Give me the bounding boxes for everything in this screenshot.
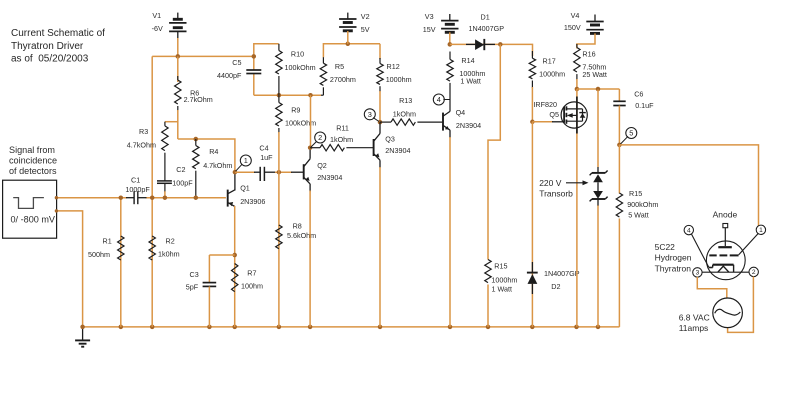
battery V2 [339,13,356,31]
C1 labels [125,176,150,195]
svg-text:11amps: 11amps [679,323,709,333]
svg-text:Q4: Q4 [456,108,466,117]
svg-text:C5: C5 [232,58,241,67]
svg-text:Thyratron Driver: Thyratron Driver [11,41,84,52]
wire D2 line [531,122,533,327]
svg-text:1000hm: 1000hm [386,75,412,84]
transistor Q2 [304,159,310,192]
R7 labels [241,268,263,290]
svg-text:Anode: Anode [713,210,738,220]
svg-text:R15: R15 [494,261,507,270]
svg-text:R3: R3 [139,127,148,136]
svg-text:Q3: Q3 [385,135,395,144]
R12 labels [386,62,412,84]
wire pin3 to AC [697,277,727,298]
svg-text:R17: R17 [543,56,556,65]
svg-text:5V: 5V [361,25,370,34]
capacitor C5 [246,70,261,74]
svg-text:R10: R10 [291,49,304,58]
Q2 labels [317,161,342,182]
svg-text:2N3904: 2N3904 [317,173,342,182]
wire Q4 emitter [449,137,451,327]
resistor R5 [320,57,326,95]
svg-text:Q5: Q5 [549,110,559,119]
svg-text:6.8 VAC: 6.8 VAC [679,312,710,322]
svg-text:V4: V4 [571,11,580,20]
svg-text:1: 1 [759,227,763,234]
transorb diodes [590,171,608,202]
svg-text:R13: R13 [399,96,412,105]
svg-text:2N3906: 2N3906 [240,197,265,206]
wire left rail [150,56,155,327]
svg-text:1kOhm: 1kOhm [393,109,416,118]
resistor R16 [574,44,580,91]
node 1 circle [236,155,252,171]
svg-text:Transorb: Transorb [539,188,573,198]
wire top rail right [323,42,380,58]
wire transorb [597,90,599,327]
wire mosfet vertical [576,89,578,327]
V4 labels [564,11,581,32]
R6 labels [184,89,213,104]
AC labels [679,312,710,333]
thyratron caption [655,242,692,274]
svg-text:100kOhm: 100kOhm [285,63,316,72]
node 4 circle [433,94,449,105]
node 5 circle [621,128,637,145]
wire R6 bottom [177,110,179,139]
node 1 junction [233,170,238,191]
wire drain rail [577,87,620,92]
R16 labels [582,50,607,79]
wire V1 rail to R6 [177,56,179,82]
svg-text:-6V: -6V [152,24,163,33]
Q1 labels [240,184,265,206]
resistor R3 [162,122,168,181]
capacitor C3 [203,283,217,327]
resistor R1 [118,195,124,326]
svg-text:D2: D2 [551,282,560,291]
wire pin2 to AC [728,277,754,333]
resistor R2 [149,236,155,260]
svg-text:100kOhm: 100kOhm [285,119,316,128]
svg-text:R15: R15 [629,189,642,198]
wire C3 branch [209,255,234,282]
resistor R7 [232,264,238,292]
resistor R6 [175,76,181,111]
C4 labels [259,144,273,162]
wire C6 bottom [617,106,622,148]
svg-text:R8: R8 [293,222,302,231]
svg-text:5C22: 5C22 [655,242,676,252]
svg-text:4.7kOhm: 4.7kOhm [203,161,232,170]
svg-text:R7: R7 [247,268,256,277]
D2 labels [544,269,580,291]
svg-text:1 Watt: 1 Watt [492,285,513,294]
wire R15 feed [488,44,500,259]
svg-text:4: 4 [437,95,441,104]
wire top rail left [252,44,279,95]
wire V3 stem [448,32,453,46]
wire V2 stem [347,31,349,44]
svg-text:100hm: 100hm [241,281,263,290]
svg-text:1000pF: 1000pF [125,185,150,194]
diode D1 [466,39,495,50]
R10 labels [285,49,316,72]
bus junction dots [119,325,601,330]
resistor R9 [276,95,282,172]
svg-text:4: 4 [687,227,691,234]
thyratron pin 4 circle [684,225,693,234]
svg-text:D1: D1 [481,12,490,21]
transistor Q1 [228,190,235,207]
signal source caption [9,145,57,176]
svg-text:R5: R5 [335,62,344,71]
resistor R10 [276,44,282,95]
wire Q3 emitter [379,167,381,327]
wire V1 stem [176,38,181,59]
C6 labels [634,90,654,111]
capacitor C2 [157,181,172,200]
wire Q1 emitter [232,206,237,327]
resistor R15 (1 Watt) [485,260,491,327]
resistor R17 [529,51,535,124]
R5 labels [330,62,356,84]
resistor R14 [447,52,453,112]
svg-text:V3: V3 [425,12,434,21]
resistor R15 (5 Watt) [616,145,622,327]
svg-text:C1: C1 [131,176,140,185]
svg-text:Current Schematic of: Current Schematic of [11,28,105,39]
svg-text:2: 2 [318,133,322,142]
svg-text:Signal from: Signal from [9,145,55,155]
C5 labels [217,58,242,80]
svg-text:5 Watt: 5 Watt [628,211,649,220]
svg-text:R12: R12 [387,62,400,71]
transistor Q4 [443,111,450,138]
svg-text:1000hm: 1000hm [539,70,565,79]
svg-text:Q1: Q1 [240,184,250,193]
wire C4 line [235,170,304,175]
R13 labels [393,96,416,118]
svg-text:R11: R11 [336,123,349,132]
svg-text:C6: C6 [634,90,643,99]
svg-text:500hm: 500hm [88,250,110,259]
svg-text:25 Watt: 25 Watt [582,70,607,79]
V3 labels [423,12,436,34]
C2 labels [172,165,193,188]
wire Q2 collector [308,95,313,159]
wire C6 top [618,89,620,101]
node 2 circle [311,132,326,147]
svg-text:1N4007GP: 1N4007GP [469,24,505,33]
title text [11,28,105,64]
wire gate line [532,121,564,123]
svg-text:Q2: Q2 [317,161,327,170]
svg-text:2700hm: 2700hm [330,75,356,84]
battery V3 [441,14,458,32]
resistor R13 [380,119,442,125]
svg-text:100pF: 100pF [172,179,193,188]
battery V1 [169,13,186,40]
svg-text:1000hm: 1000hm [491,275,517,284]
svg-text:R16: R16 [582,50,595,59]
svg-text:Hydrogen: Hydrogen [655,253,692,263]
svg-text:1k0hm: 1k0hm [158,250,180,259]
svg-text:V2: V2 [361,12,370,21]
thyratron tube V5 [691,224,758,280]
svg-text:0.1uF: 0.1uF [635,101,654,110]
svg-text:R2: R2 [166,237,175,246]
svg-text:1 Watt: 1 Watt [460,77,481,86]
svg-text:4400pF: 4400pF [217,71,242,80]
svg-text:IRF820: IRF820 [533,100,557,109]
C3 labels [186,270,199,292]
svg-text:0/ -800 mV: 0/ -800 mV [11,215,56,225]
svg-text:2.7kOhm: 2.7kOhm [184,95,213,104]
R9 labels [285,105,316,127]
R11 labels [330,123,353,143]
Q3 labels [385,135,410,155]
svg-text:R14: R14 [461,56,474,65]
svg-text:2N3904: 2N3904 [385,146,410,155]
capacitor C6 [613,101,625,105]
svg-text:2N3904: 2N3904 [456,121,481,130]
svg-text:1kOhm: 1kOhm [330,135,353,144]
V2 labels [361,12,370,34]
resistor R11 [310,145,374,151]
svg-text:2: 2 [752,269,756,276]
svg-text:V1: V1 [152,11,161,20]
wire node5 line [619,145,758,226]
ground bus wire [83,326,620,328]
svg-text:900kOhm: 900kOhm [627,200,658,209]
ground [75,325,90,347]
AC source T1 [713,298,743,328]
svg-text:coincidence: coincidence [9,155,57,165]
capacitor C4 [260,167,264,181]
wire node1 feed [178,137,235,172]
R15 1W labels [491,261,517,293]
transistor Q3 [374,122,380,168]
R15 5W labels [627,189,658,220]
resistor R4 [193,139,199,200]
wire mid rail [254,93,321,98]
resistor R8 [276,172,282,327]
svg-text:5pF: 5pF [186,283,199,292]
node 3 circle [364,109,379,122]
wire D1 line [450,42,533,56]
svg-text:R9: R9 [291,105,300,114]
D1 labels [469,12,505,32]
R8 labels [287,222,316,241]
resistor R12 [377,44,383,125]
R4 labels [203,147,232,170]
svg-text:1uF: 1uF [260,153,273,162]
mosfet Q5 IRF820 [561,97,587,134]
svg-text:C3: C3 [190,270,199,279]
svg-text:5.6kOhm: 5.6kOhm [287,231,316,240]
svg-text:3: 3 [696,270,700,277]
battery V4 [586,15,603,34]
svg-text:of detectors: of detectors [9,166,57,176]
R1 labels [88,237,112,259]
capacitor C1 [126,191,147,204]
R3 labels [127,127,156,150]
R2 labels [158,237,180,259]
svg-text:220 V: 220 V [539,178,562,188]
wire signal bottom output [55,209,83,327]
svg-text:1: 1 [244,156,248,165]
anode label [713,210,738,220]
thyratron pin 2 circle [749,267,758,276]
wire Q2 emitter [309,191,311,327]
R14 labels [459,56,485,86]
signal source box [3,180,57,238]
svg-text:C2: C2 [176,165,185,174]
thyratron pin 1 circle [756,225,765,234]
wire R3 tee [165,121,178,123]
wire V4 elbow [577,33,595,48]
svg-text:3: 3 [368,110,372,119]
svg-text:Thyratron: Thyratron [655,263,692,273]
thyratron pin 3 circle [693,268,702,277]
svg-text:15V: 15V [423,25,436,34]
diode D2 [527,262,538,294]
wire -6V rail [152,55,254,57]
svg-text:R4: R4 [209,147,218,156]
Q5 labels [533,100,559,119]
svg-text:R1: R1 [103,237,112,246]
Q4 labels [456,108,481,130]
svg-text:4.7kOhm: 4.7kOhm [127,141,156,150]
svg-text:5: 5 [629,129,633,138]
transorb labels [539,178,588,199]
svg-text:150V: 150V [564,23,581,32]
svg-text:as of 05/20/2003: as of 05/20/2003 [11,54,89,65]
R17 labels [539,56,565,78]
svg-text:1N4007GP: 1N4007GP [544,269,580,278]
wire signal top output [55,196,226,199]
V1 labels [152,11,163,33]
svg-text:C4: C4 [259,144,268,153]
